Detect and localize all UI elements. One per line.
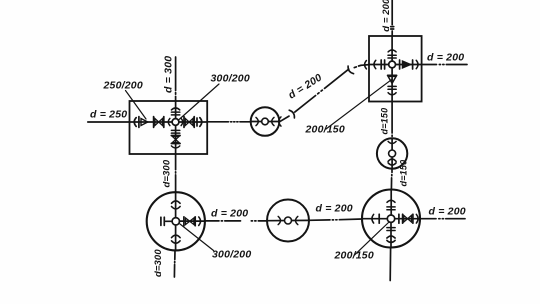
socket joint on diagonal upper — [348, 66, 354, 74]
svg-text:d = 250: d = 250 — [90, 109, 127, 121]
chamber K2 — [369, 36, 422, 102]
wire east stub W4 — [180, 220, 205, 222]
well W2 — [377, 138, 407, 168]
wire riser through W4 — [175, 192, 177, 250]
socket joint — [168, 118, 170, 125]
wire through W2 — [391, 138, 393, 168]
svg-text:250/200: 250/200 — [103, 80, 143, 92]
node in W1 — [262, 118, 269, 125]
leader to node T3 — [354, 223, 389, 256]
leader to reducer in K2 — [326, 80, 391, 129]
manhole W4 bottom left — [147, 192, 205, 250]
socket joint bottom branch W3 second — [387, 240, 395, 242]
socket joint — [272, 117, 274, 125]
wire below W4 — [173, 250, 176, 277]
check valve K2 right — [400, 60, 413, 69]
socket joint top branch — [171, 108, 179, 110]
wire main run inside chamber K1 — [130, 121, 208, 123]
socket joint top branch W4 — [172, 201, 181, 203]
socket joint — [388, 93, 396, 95]
gate valve in W4 — [186, 217, 196, 226]
socket joint before K2 — [365, 61, 367, 69]
leader to node T4 — [180, 224, 214, 251]
svg-text:200/150: 200/150 — [305, 124, 345, 136]
socket joint — [388, 159, 396, 161]
node T1 (cross junction) — [172, 119, 179, 126]
well W1 — [251, 107, 280, 136]
svg-text:d = 200: d = 200 — [211, 208, 248, 220]
reducer 250/200 — [139, 117, 148, 128]
wire riser inside K2 lower — [391, 68, 393, 102]
wire through well W1 — [251, 121, 279, 123]
wire d=250 inlet — [88, 121, 130, 123]
plug on west stub W4 — [161, 217, 173, 225]
node in W5 — [285, 217, 292, 224]
flange joint bottom branch — [171, 130, 179, 133]
chamber K1 — [130, 101, 208, 154]
wire d=200 out right of W3 — [420, 218, 465, 220]
wire diagonal d=200 to chamber K2 — [281, 65, 370, 122]
socket joint — [388, 50, 396, 52]
socket joint — [278, 216, 280, 224]
reducer 200/150 — [388, 75, 397, 83]
manhole W3 bottom right — [362, 190, 420, 248]
node in W2 — [389, 150, 396, 157]
manhole W5 bottom middle — [267, 200, 309, 242]
wire riser d=300 above chamber K1 — [175, 57, 177, 101]
wire K1 to well W1 — [207, 121, 251, 123]
flange joint top branch W3 — [387, 207, 395, 210]
gate valve V1 — [154, 117, 164, 128]
socket joint bottom branch W4 second — [172, 241, 181, 243]
node T4 in W4 — [172, 218, 179, 225]
wire through W5 — [267, 219, 309, 221]
wire W5 to W3 — [309, 219, 362, 220]
socket joint bottom branch W3 — [387, 236, 395, 238]
socket joint — [279, 117, 281, 126]
svg-text:d = 200: d = 200 — [286, 72, 324, 102]
socket joint — [388, 163, 396, 165]
node T3 in W3 — [387, 215, 394, 222]
svg-text:d = 200: d = 200 — [316, 203, 353, 215]
wire d=150 below W2 — [390, 169, 393, 190]
wire d=150 below K2 — [391, 102, 393, 140]
leader to node T1 — [179, 84, 220, 120]
socket joint — [374, 60, 376, 68]
socket joint top branch W4 second — [172, 207, 181, 209]
gate valve in W3 — [403, 214, 413, 223]
wire riser inside chamber K1 — [175, 101, 177, 119]
gate valve V3 vertical — [171, 136, 180, 144]
socket joint — [388, 141, 396, 143]
wire W4 to W5 — [205, 220, 267, 222]
socket joint — [181, 118, 183, 125]
wire riser lower inside chamber K1 — [175, 125, 177, 154]
wire riser inside K2 upper — [391, 36, 393, 61]
svg-text:d = 200: d = 200 — [381, 0, 392, 32]
flange joint — [388, 55, 396, 58]
flange joint — [378, 214, 380, 223]
wire below W3 — [389, 248, 391, 281]
flange joint top branch — [171, 112, 179, 115]
svg-text:300/200: 300/200 — [211, 73, 250, 85]
wire main run inside K2 — [369, 64, 422, 66]
socket joint — [372, 214, 374, 223]
svg-text:d=150: d=150 — [399, 160, 409, 187]
socket joint — [256, 117, 258, 125]
wire d=200 out right of K2 — [422, 64, 467, 66]
svg-text:d=300: d=300 — [153, 249, 164, 277]
socket joint bottom branch — [171, 146, 179, 148]
wire riser between K1 and W4 — [175, 154, 177, 192]
flange joint — [388, 86, 396, 89]
node T2 (cross junction) — [389, 61, 396, 68]
flange joint bottom branch W3 — [387, 228, 395, 231]
socket joint top branch W3 — [387, 200, 395, 202]
socket joint on diagonal — [289, 110, 294, 118]
socket joint — [199, 217, 201, 226]
socket joint bottom branch W4 — [172, 235, 181, 237]
socket joint — [416, 214, 418, 223]
svg-text:d = 200: d = 200 — [427, 52, 464, 64]
socket joint — [134, 118, 136, 127]
socket joint — [200, 118, 202, 127]
leader to reducer — [126, 91, 147, 120]
gate valve V2 — [184, 117, 197, 128]
flange joint — [398, 214, 400, 223]
flange joint — [381, 60, 384, 69]
svg-text:d = 300: d = 300 — [163, 56, 175, 93]
svg-text:d = 200: d = 200 — [429, 206, 466, 218]
wire riser d=200 above K2 — [391, 0, 394, 36]
wire through W3 horizontal — [362, 218, 420, 220]
svg-text:d=150: d=150 — [380, 108, 390, 135]
socket joint — [296, 216, 298, 224]
socket joint — [416, 60, 418, 68]
wire riser through W3 — [390, 190, 392, 248]
flange joint — [183, 217, 185, 226]
svg-text:d=300: d=300 — [162, 159, 173, 187]
svg-text:300/200: 300/200 — [212, 249, 251, 261]
